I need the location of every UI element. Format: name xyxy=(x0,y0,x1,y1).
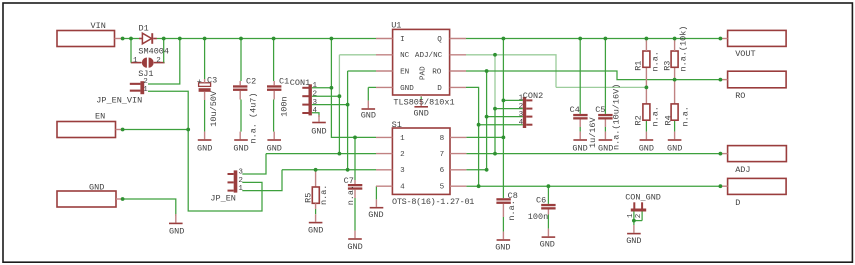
wire C5 riser xyxy=(604,39,606,114)
wire U1 RO row xyxy=(466,71,720,80)
svg-text:1: 1 xyxy=(313,82,318,90)
svg-text:C4: C4 xyxy=(570,105,580,115)
wire C3 riser xyxy=(204,39,206,80)
wire C3 lower xyxy=(204,100,206,132)
connector VIN xyxy=(57,31,115,47)
node S1 pin3 CON1 xyxy=(346,168,350,172)
capacitor C7 xyxy=(348,184,362,186)
svg-text:D: D xyxy=(437,85,442,93)
svg-text:U1: U1 xyxy=(391,21,401,31)
connector ADJ xyxy=(728,146,787,162)
node EN junction xyxy=(186,128,190,132)
svg-text:R2: R2 xyxy=(634,115,644,125)
svg-text:+: + xyxy=(197,77,202,87)
svg-text:GND: GND xyxy=(361,111,376,121)
wire S1 pin7 row to ADJ xyxy=(466,153,720,155)
node S1 pin3 R5 xyxy=(314,168,318,172)
svg-text:2: 2 xyxy=(635,213,643,218)
capacitor C4 xyxy=(573,114,587,116)
ground C8 xyxy=(502,232,504,240)
svg-text:2: 2 xyxy=(156,57,161,65)
wire C6 lower xyxy=(547,215,549,229)
resistor R4 xyxy=(671,104,678,120)
svg-text:C3: C3 xyxy=(207,75,217,85)
capacitor C2 xyxy=(233,85,247,87)
ground C4 xyxy=(579,132,581,140)
resistor R5 xyxy=(312,187,319,203)
svg-text:1u/16V: 1u/16V xyxy=(588,116,598,148)
ground under C1 xyxy=(273,132,275,140)
resistor R1 xyxy=(643,51,650,67)
node RO R3/R4 xyxy=(673,78,677,82)
svg-text:3: 3 xyxy=(313,99,318,107)
wire JP_EN_VIN pin2 riser xyxy=(148,39,180,85)
node ADJ pin xyxy=(719,152,723,156)
svg-text:GND: GND xyxy=(308,225,323,235)
svg-text:CON1: CON1 xyxy=(290,78,310,88)
wire U1 D to vertical xyxy=(466,87,479,186)
ground under C3 xyxy=(204,132,206,140)
header CON1 xyxy=(309,84,312,115)
wire CON1 pin3 net vertical xyxy=(347,71,349,170)
svg-text:100n: 100n xyxy=(528,212,548,222)
svg-text:n.a.: n.a. xyxy=(680,106,690,126)
node D pin xyxy=(719,184,723,188)
node C6 D row xyxy=(547,184,551,188)
ground under C2 xyxy=(239,132,241,140)
wire C8 riser xyxy=(502,137,504,198)
wire CON2 row4 xyxy=(479,124,523,126)
wire R5 bottom xyxy=(315,209,317,214)
svg-text:ADJ/NC: ADJ/NC xyxy=(415,52,443,60)
svg-text:R3: R3 xyxy=(663,61,673,71)
wire U1 ADJ row (pale) xyxy=(466,55,556,88)
svg-text:RO: RO xyxy=(432,68,442,76)
node S1 pin2 xyxy=(338,152,342,156)
svg-text:GND: GND xyxy=(400,85,414,93)
wire S1 pin5 row to D xyxy=(466,185,720,187)
node SJ1-1 rail xyxy=(129,37,133,41)
wire C2 lower xyxy=(240,100,242,132)
svg-text:GND: GND xyxy=(414,108,429,118)
svg-text:RO: RO xyxy=(735,91,745,101)
wire JP_EN pin1 xyxy=(242,170,282,191)
svg-text:I: I xyxy=(400,36,405,44)
svg-text:GND: GND xyxy=(495,242,510,252)
wire S1 pin2 row xyxy=(266,153,376,155)
svg-text:1: 1 xyxy=(238,185,243,193)
node CON2 row2 xyxy=(493,107,497,111)
svg-text:4: 4 xyxy=(519,119,524,127)
svg-text:GND: GND xyxy=(540,239,555,249)
wire C4 lower xyxy=(579,127,581,132)
connector GND xyxy=(57,191,116,207)
ground R2 xyxy=(645,132,647,140)
ground R5 xyxy=(315,214,317,222)
node Q R3 xyxy=(673,37,677,41)
wire C1 lower xyxy=(273,100,275,132)
ground U1 gnd xyxy=(367,101,369,109)
node GND pin xyxy=(121,197,125,201)
connector D xyxy=(728,178,787,194)
wire U1 NC net vertical xyxy=(338,55,340,96)
svg-text:5: 5 xyxy=(440,184,445,192)
wire CON1 row3 xyxy=(312,104,348,106)
svg-text:C5: C5 xyxy=(595,105,605,115)
svg-text:EN: EN xyxy=(95,112,105,122)
node S1 pin1/C7 xyxy=(353,136,357,140)
svg-text:4: 4 xyxy=(313,107,318,115)
IC S1 xyxy=(392,128,450,194)
svg-text:VOUT: VOUT xyxy=(735,49,755,59)
svg-text:TLS805/810x1: TLS805/810x1 xyxy=(393,97,454,107)
node CON1 row3 xyxy=(346,103,350,107)
jumper JP_EN_VIN xyxy=(140,81,144,94)
svg-text:GND: GND xyxy=(89,183,104,193)
node C2 rail xyxy=(239,37,243,41)
wire SJ1 pin2 riser xyxy=(163,39,165,58)
wire CON1 row2 xyxy=(312,95,339,97)
svg-text:3: 3 xyxy=(400,167,405,175)
ground R4 xyxy=(674,132,676,140)
node RO pin xyxy=(719,78,723,82)
svg-text:6: 6 xyxy=(440,167,445,175)
IC U1 xyxy=(393,29,450,95)
svg-text:4: 4 xyxy=(400,184,405,192)
wire SJ1 pin1 riser xyxy=(130,39,132,58)
connector EN xyxy=(57,122,116,138)
svg-text:CON2: CON2 xyxy=(523,91,543,101)
header CON_GND xyxy=(631,209,646,212)
node VIN pin xyxy=(121,37,125,41)
svg-text:n.a.: n.a. xyxy=(651,106,661,126)
svg-text:Q: Q xyxy=(437,36,442,44)
wire CON1 pin4 to GND xyxy=(312,113,319,117)
wire U1 GND to ground xyxy=(368,86,376,88)
svg-text:1: 1 xyxy=(627,213,635,218)
svg-text:n.a.(10k): n.a.(10k) xyxy=(678,26,688,72)
node CON1 rail xyxy=(330,37,334,41)
wire GND connector xyxy=(123,199,176,216)
svg-text:D: D xyxy=(735,198,740,208)
wire CON2 row2 xyxy=(495,108,523,110)
svg-text:2: 2 xyxy=(400,151,405,159)
svg-text:8: 8 xyxy=(440,135,445,143)
capacitor C8 xyxy=(496,198,510,200)
svg-text:n.a.: n.a. xyxy=(346,185,356,205)
wire U1 NC row xyxy=(339,54,376,56)
wire C7 bottom xyxy=(354,198,356,231)
ground S1 pin4 xyxy=(375,199,377,207)
node ADJ R1/R2 xyxy=(645,86,649,90)
node S1 pin8 end xyxy=(502,136,506,140)
ground C7 xyxy=(354,231,356,239)
capacitor C6 xyxy=(541,204,555,206)
svg-text:1: 1 xyxy=(400,135,405,143)
wire CON1 pin1 net xyxy=(331,39,376,138)
svg-text:n.a.: n.a. xyxy=(651,51,661,71)
wire ADJ horizontal xyxy=(556,86,646,88)
svg-text:D1: D1 xyxy=(139,24,149,34)
svg-text:GND: GND xyxy=(572,143,587,153)
svg-text:C2: C2 xyxy=(246,77,256,87)
svg-text:GND: GND xyxy=(667,143,682,153)
svg-text:C7: C7 xyxy=(344,176,354,186)
svg-text:ADJ: ADJ xyxy=(735,165,750,175)
svg-text:2: 2 xyxy=(238,177,243,185)
node SJ1-2 rail xyxy=(162,37,166,41)
node ADJ branch xyxy=(493,53,497,57)
svg-text:JP_EN: JP_EN xyxy=(210,194,236,204)
node Q R1 xyxy=(645,37,649,41)
svg-text:R1: R1 xyxy=(634,61,644,71)
svg-text:OTS-8(16)-1.27-01: OTS-8(16)-1.27-01 xyxy=(392,197,474,207)
node CON1 row2 xyxy=(338,94,342,98)
wire C5 lower xyxy=(604,127,606,132)
node CON2 row3 xyxy=(485,115,489,119)
capacitor C1 xyxy=(267,85,281,87)
wire C6 riser xyxy=(547,186,549,204)
wire R5 top xyxy=(315,171,317,187)
svg-text:10u/50V: 10u/50V xyxy=(209,90,219,127)
wire CON1 row1 xyxy=(312,87,331,89)
svg-text:n.a.: n.a. xyxy=(319,185,329,205)
svg-text:SM4004: SM4004 xyxy=(138,47,169,57)
svg-text:C6: C6 xyxy=(536,195,546,205)
wire S1 pin3 row xyxy=(282,169,376,171)
wire EN connector xyxy=(123,129,189,131)
svg-text:EN: EN xyxy=(400,68,409,76)
wire CON_GND pins to GND xyxy=(633,212,635,221)
svg-text:S1: S1 xyxy=(392,120,402,130)
wire R3 bottom to R4 xyxy=(674,67,676,104)
resistor R3 xyxy=(671,51,678,67)
ground U1 pad xyxy=(414,106,428,108)
connector RO xyxy=(728,71,787,88)
svg-text:GND: GND xyxy=(233,144,248,154)
svg-text:100n: 100n xyxy=(279,96,289,116)
pad pin U1 xyxy=(420,95,422,97)
wire U1 Q row xyxy=(466,38,720,40)
svg-text:3: 3 xyxy=(238,168,243,176)
ground CON1 pin4 xyxy=(318,115,320,122)
node CON2 row4 xyxy=(477,123,481,127)
node CON2 row1 xyxy=(502,99,506,103)
header CON2 xyxy=(523,97,526,128)
wire ADJ branch vertical (pale) xyxy=(494,55,496,109)
svg-text:2: 2 xyxy=(143,78,148,86)
wire RO branch vertical xyxy=(486,71,488,170)
svg-text:GND: GND xyxy=(267,144,282,154)
node JP_EN_VIN rail xyxy=(178,37,182,41)
svg-text:GND: GND xyxy=(311,126,326,136)
wire C4 riser xyxy=(579,39,581,114)
svg-text:1: 1 xyxy=(143,86,148,94)
svg-text:3: 3 xyxy=(519,111,524,119)
node EN pin xyxy=(121,128,125,132)
node CON_GND join xyxy=(632,219,636,223)
svg-text:n.a.(10u/16V): n.a.(10u/16V) xyxy=(612,84,622,150)
svg-text:2: 2 xyxy=(313,90,318,98)
ground C6 xyxy=(547,229,549,237)
wire C2 riser xyxy=(240,39,242,82)
svg-text:C8: C8 xyxy=(508,191,518,201)
svg-text:n.a.: n.a. xyxy=(507,200,517,220)
svg-text:C1: C1 xyxy=(279,77,289,87)
wire C8 lower xyxy=(502,217,504,232)
solder jumper SJ1 xyxy=(142,58,147,68)
wire EN U-route to JP_EN pin2 xyxy=(188,130,262,212)
diode D1 SM4004 xyxy=(139,38,142,40)
node CON1 row1 xyxy=(330,86,334,90)
svg-text:7: 7 xyxy=(440,151,445,159)
svg-text:NC: NC xyxy=(400,52,410,60)
wire JP_EN_VIN pin1 to EN net xyxy=(148,91,188,129)
node S1 pin5 D xyxy=(477,184,481,188)
svg-text:VIN: VIN xyxy=(91,21,106,31)
svg-text:JP_EN_VIN: JP_EN_VIN xyxy=(96,96,142,106)
svg-text:GND: GND xyxy=(169,227,184,237)
svg-text:2: 2 xyxy=(519,103,524,111)
node S1 pin6 end xyxy=(485,168,489,172)
node C1 rail xyxy=(272,37,276,41)
wire R1 bottom to R2 xyxy=(645,67,647,104)
wire R3 top stub xyxy=(674,39,676,42)
svg-text:1: 1 xyxy=(133,57,138,65)
svg-text:GND: GND xyxy=(347,242,362,252)
ground under GND connector xyxy=(175,214,177,223)
capacitor C5 xyxy=(598,114,612,116)
wire R4 bottom xyxy=(674,120,676,131)
node Q C4 xyxy=(578,37,582,41)
svg-text:R4: R4 xyxy=(664,115,674,125)
wire U1 EN row xyxy=(348,70,376,72)
node Q C5 xyxy=(604,37,608,41)
node Q S1 pin8 xyxy=(502,37,506,41)
ground CON_GND xyxy=(633,225,635,233)
wire CON2 row1 xyxy=(503,99,522,101)
svg-text:GND: GND xyxy=(639,143,654,153)
wire S1 pin1 to C7 xyxy=(354,137,356,180)
svg-text:GND: GND xyxy=(368,210,383,220)
svg-text:n.a. (4u7): n.a. (4u7) xyxy=(248,92,258,143)
svg-text:GND: GND xyxy=(598,143,613,153)
node C3 rail xyxy=(203,37,207,41)
resistor R2 xyxy=(643,104,650,120)
wire S1 pin4 to GND xyxy=(375,186,377,199)
wire S1 pin8 row xyxy=(466,136,503,138)
ground C5 xyxy=(604,132,606,140)
connector VOUT xyxy=(728,30,787,46)
svg-text:1: 1 xyxy=(519,95,524,103)
wire R1 top stub xyxy=(645,39,647,42)
node VOUT pin xyxy=(719,37,723,41)
wire S1 pin6 row xyxy=(466,169,486,171)
wire CON2 row3 xyxy=(487,116,523,118)
svg-text:R5: R5 xyxy=(304,193,314,203)
capacitor C3 xyxy=(199,83,211,87)
svg-text:GND: GND xyxy=(626,236,641,246)
svg-text:GND: GND xyxy=(197,144,212,154)
wire Q to S1 pin8 vertical xyxy=(502,39,504,138)
node S1 pin7 branch xyxy=(493,152,497,156)
wire C1 riser xyxy=(273,39,275,82)
node RO branch xyxy=(485,69,489,73)
svg-text:CON_GND: CON_GND xyxy=(625,192,661,202)
wire VIN rail xyxy=(123,38,139,40)
wire JP_EN pin3 xyxy=(242,154,266,174)
svg-text:PAD: PAD xyxy=(419,66,427,80)
jumper JP_EN xyxy=(234,170,238,192)
wire R2 bottom xyxy=(645,120,647,131)
